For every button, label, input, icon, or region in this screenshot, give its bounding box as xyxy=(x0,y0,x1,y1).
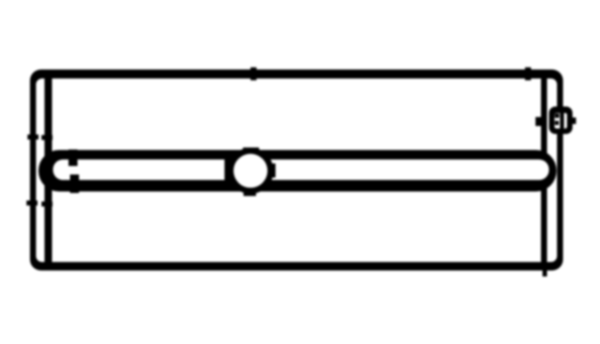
tick right of oil hole xyxy=(266,164,276,178)
tick on top edge, centre xyxy=(251,67,257,80)
lug interior mark, upper dot xyxy=(555,114,559,118)
oil groove (full-length capsule) xyxy=(39,150,557,192)
tick crossing groove bottom line near left end xyxy=(70,175,79,194)
oil hole (centre circle) xyxy=(228,148,274,194)
tick below oil hole xyxy=(244,190,257,196)
lug interior mark, lower dot xyxy=(555,121,559,125)
tick on top edge, right xyxy=(525,67,531,80)
lower tick on inner left edge xyxy=(42,202,53,207)
bearing shell outer outline (flattened plan view, rounded rectangle) xyxy=(30,70,563,271)
upper tick on inner left edge xyxy=(42,135,53,140)
upper tick on outer left edge xyxy=(28,135,39,140)
left parting-face edge line (inner left vertical) xyxy=(45,74,53,266)
tick on right side of lug xyxy=(571,118,576,125)
outer right edge line crossing lug interior xyxy=(560,113,564,129)
right parting-face edge line (inner right vertical) xyxy=(541,74,547,266)
tick crossing groove top line near left end xyxy=(69,150,78,167)
lower tick on outer left edge xyxy=(27,201,38,206)
tick left of oil hole (fills groove interior) xyxy=(225,158,234,184)
tail tick below bottom-right corner xyxy=(543,268,548,277)
locating lug (tab on right edge) xyxy=(549,107,573,135)
tick on inner right edge at lug height xyxy=(536,117,543,126)
tick above oil hole xyxy=(243,148,259,154)
